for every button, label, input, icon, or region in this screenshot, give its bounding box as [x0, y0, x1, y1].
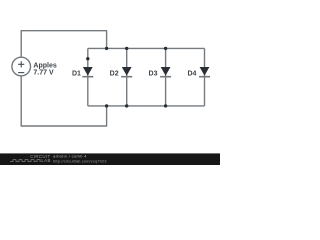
diode D4 triangle [200, 67, 210, 76]
diode D4 cathode bar [199, 76, 210, 78]
watermark bar [0, 153, 220, 165]
wire bottom rail [88, 105, 205, 107]
voltage source V1 plus sign [18, 61, 24, 67]
diode D2 triangle [122, 67, 132, 76]
node top rail at D3 [164, 47, 167, 50]
voltage source V1 circle [12, 57, 31, 76]
svg-text:D1: D1 [72, 71, 81, 78]
wire top rail [88, 47, 205, 49]
svg-text:D4: D4 [187, 71, 196, 78]
svg-text:D2: D2 [110, 71, 119, 78]
diode D1 cathode bar [82, 76, 93, 78]
node top rail at D2 [125, 47, 128, 50]
node D1 anode [86, 57, 89, 60]
diode D3 triangle [161, 67, 171, 76]
wire branch D2 [126, 48, 128, 106]
node bottom rail at D2 [125, 104, 128, 107]
diode D3 cathode bar [160, 76, 171, 78]
svg-text:LAB: LAB [41, 158, 50, 163]
svg-text:7.77 V: 7.77 V [33, 69, 54, 76]
diode D2 cathode bar [121, 76, 132, 78]
node top rail at V1 feed [105, 47, 108, 50]
node bottom rail at D3 [164, 104, 167, 107]
wire branch D4 [204, 48, 206, 106]
watermark logo waveform [10, 160, 41, 162]
wire branch D1 [87, 48, 89, 106]
wire branch D3 [165, 48, 167, 106]
diode D1 triangle [83, 67, 93, 76]
wire top loop from V1 to rail [21, 31, 106, 58]
svg-text:Apples: Apples [33, 62, 56, 69]
svg-text:D3: D3 [149, 71, 158, 78]
wire bottom loop from rail to V1 [21, 76, 106, 126]
svg-text:http://circuitlab.com/cxq7h23: http://circuitlab.com/cxq7h23 [53, 158, 107, 163]
voltage source V1 minus sign [18, 72, 24, 74]
node bottom rail at V1 return [105, 104, 108, 107]
